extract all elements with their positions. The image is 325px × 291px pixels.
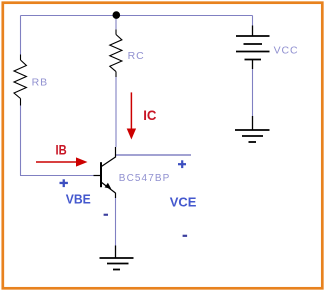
wire right vertical to battery [252, 16, 254, 27]
resistor RB [14, 55, 26, 106]
emitter arrowhead [105, 183, 112, 189]
wire top rail [21, 15, 253, 17]
battery VCC [236, 26, 270, 70]
svg-text:VBE: VBE [66, 191, 91, 206]
wire base horizontal [20, 175, 94, 177]
svg-text:BC547BP: BC547BP [119, 173, 171, 184]
wire emitter down [115, 198, 117, 246]
wire RC top stub [115, 16, 117, 30]
resistor RC [110, 30, 122, 78]
wire left vertical lower [20, 106, 22, 176]
transistor Q1 BC547BP [94, 147, 116, 198]
label minus VCE [183, 235, 188, 237]
label minus VBE [104, 214, 108, 216]
ground right [235, 116, 270, 142]
node junction dot [113, 11, 121, 19]
current arrow IB [36, 157, 88, 166]
svg-text:IC: IC [143, 107, 156, 123]
wire RC to collector [115, 77, 117, 147]
svg-text:RB: RB [32, 77, 48, 89]
svg-text:RC: RC [128, 50, 145, 62]
svg-text:IB: IB [56, 142, 67, 158]
label plus VBE [60, 179, 68, 187]
wire left vertical upper [20, 16, 22, 55]
label plus VCE [178, 160, 186, 168]
wire battery to ground [252, 69, 254, 117]
svg-text:VCE: VCE [170, 194, 197, 209]
wire VCE branch [116, 154, 191, 156]
svg-text:VCC: VCC [274, 45, 299, 57]
current arrow IC [127, 92, 136, 139]
ground mid (emitter) [100, 246, 134, 270]
